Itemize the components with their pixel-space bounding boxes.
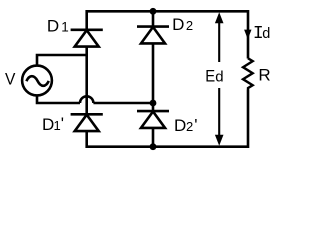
wire: top rail with D1 cathode riser and right-side drop [87,11,248,58]
svg-text:2: 2 [186,119,193,134]
junction dot: bottom rail / D2' [150,143,157,150]
junction dot: top rail / D2 [150,8,157,15]
svg-text:1: 1 [54,118,61,133]
svg-text:2: 2 [186,18,193,33]
wire: crossover hop over D1 branch [80,96,93,103]
junction dot: source bottom wire / D2 branch [150,100,157,107]
svg-text:d: d [262,26,270,42]
wire: source bottom terminal to hop (left part) [37,97,80,104]
wire: D2 anode down to D2' cathode [152,43,155,112]
diode D1 [71,30,103,47]
svg-text:D: D [172,15,184,34]
svg-text:D: D [47,17,59,36]
svg-text:E: E [205,67,215,86]
svg-text:D: D [174,116,186,135]
voltage arrow Ed (double-headed, gap for label) [215,12,224,146]
svg-text:': ' [61,114,64,133]
svg-text:D: D [42,115,54,134]
svg-text:d: d [215,69,223,86]
diode D2 [137,27,169,44]
resistor R [243,58,253,89]
svg-text:1: 1 [61,20,69,35]
wire: D2' anode down to bottom rail [152,128,155,147]
wire: D2 cathode riser to top rail [152,11,155,27]
wire: bottom rail with D1' anode riser and right-side rise [87,90,248,147]
wire: D1 anode down to D1' cathode (through source tap, past hop) [85,46,88,115]
svg-text:R: R [258,66,270,85]
wire: hop to D2 branch junction [93,102,153,105]
diode D1' [71,114,103,131]
current arrow Id (arrowhead on right wire) [244,30,251,40]
AC source V [22,66,52,96]
diode D2' [137,111,169,128]
svg-text:': ' [194,115,197,134]
svg-text:V: V [5,69,16,88]
wire: source top terminal to D1 branch [37,55,87,65]
